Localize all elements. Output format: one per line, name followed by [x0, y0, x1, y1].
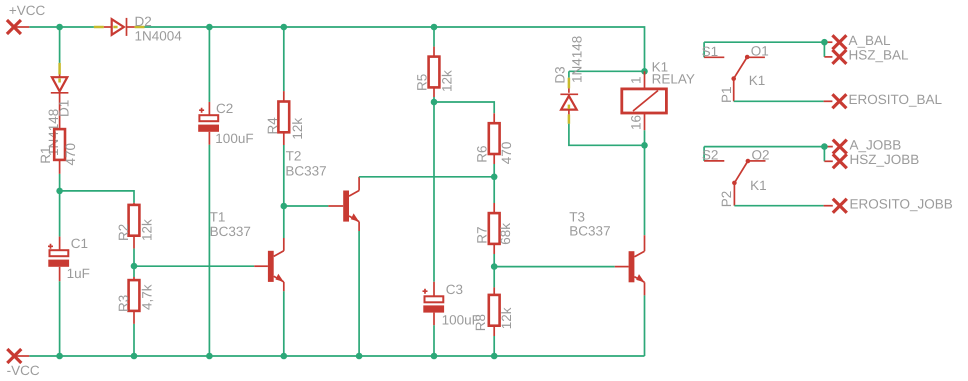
svg-text:T1: T1: [210, 209, 226, 224]
wire node G to R8: [493, 267, 495, 295]
junction bottom rail R8: [491, 353, 498, 360]
wire node E down to C3: [433, 102, 435, 282]
svg-text:D3: D3: [553, 66, 568, 83]
wire relay pin16 to node H: [644, 130, 646, 145]
switch S2: [704, 159, 765, 206]
svg-text:100uF: 100uF: [215, 131, 253, 146]
svg-text:HSZ_JOBB: HSZ_JOBB: [850, 152, 920, 167]
capacitor C2: [198, 102, 219, 145]
wire R5 to node E: [433, 87, 435, 102]
wire S1 to A_BAL: [704, 42, 832, 57]
relay K1: [622, 71, 667, 130]
svg-text:R7: R7: [475, 226, 490, 243]
svg-text:P1: P1: [719, 86, 734, 103]
resistor R2: [129, 205, 140, 236]
svg-text:T3: T3: [569, 209, 585, 224]
wire D3 anode to relay pin16 node: [569, 124, 645, 146]
wire C1 to bottom rail: [59, 281, 61, 356]
svg-text:RELAY: RELAY: [652, 71, 695, 86]
wire node C to R3: [133, 266, 135, 280]
svg-text:C3: C3: [446, 282, 463, 297]
wire R8 to bottom rail: [493, 326, 495, 356]
wire col C2 from rail: [208, 27, 210, 102]
svg-text:1uF: 1uF: [67, 266, 90, 281]
pin X EROSITO_BAL: [832, 94, 846, 108]
resistor R4: [278, 102, 289, 133]
wire node B to R2 top: [60, 191, 134, 205]
wire col B from rail to D1: [59, 27, 61, 63]
switch S1: [704, 55, 765, 102]
svg-text:D2: D2: [135, 14, 152, 29]
wire col R5 from rail: [433, 27, 435, 57]
svg-text:16: 16: [629, 115, 644, 130]
junction top rail col R5: [431, 24, 438, 31]
wire R1 to node B: [59, 160, 61, 191]
junction bottom rail T2 emitter: [356, 353, 363, 360]
wire node C to T1 base: [134, 265, 268, 267]
svg-text:12k: 12k: [440, 70, 455, 92]
wire P1 to EROSITO_BAL: [734, 100, 833, 102]
transistor T3: [629, 251, 645, 282]
svg-text:1N4004: 1N4004: [135, 29, 183, 44]
junction node A_BAL: [821, 39, 828, 46]
wire R4 to node D: [283, 132, 285, 206]
wire T2 collector to R6 node: [359, 177, 494, 191]
node +VCC pin X: [7, 20, 29, 34]
wire T2 emitter to bottom rail: [358, 222, 360, 356]
junction relay pin1 node: [641, 68, 648, 75]
diode D3: [560, 78, 578, 124]
junction node D: [281, 203, 288, 210]
svg-text:K1: K1: [750, 178, 767, 193]
resistor R6: [489, 123, 500, 154]
junction bottom rail col C2: [206, 353, 213, 360]
junction bottom rail col C: [131, 353, 138, 360]
wire R7 to node G: [493, 244, 495, 267]
junction top rail col B: [56, 24, 63, 31]
resistor R5: [429, 57, 440, 88]
transistor T1: [268, 251, 284, 282]
wire R6 to node F: [493, 154, 495, 177]
resistor R8: [489, 295, 500, 326]
svg-text:C1: C1: [71, 236, 88, 251]
svg-text:R6: R6: [475, 145, 490, 162]
svg-text:68k: 68k: [498, 223, 513, 245]
wire relay node to D3: [568, 71, 570, 77]
svg-text:HSZ_BAL: HSZ_BAL: [849, 48, 910, 63]
wire S2 to A_JOBB: [704, 147, 833, 161]
wire -VCC bottom rail: [29, 355, 644, 357]
svg-text:A_BAL: A_BAL: [849, 33, 892, 48]
svg-text:R5: R5: [415, 74, 430, 91]
pin X A_BAL: [832, 35, 846, 49]
wire node to HSZ_JOBB: [824, 147, 832, 162]
junction top rail col C2: [206, 24, 213, 31]
wire +VCC top rail: [29, 27, 644, 71]
svg-text:T2: T2: [286, 149, 302, 164]
svg-text:K1: K1: [749, 73, 766, 88]
wire R3 to bottom rail: [133, 311, 135, 356]
junction bottom rail T1 emitter: [281, 353, 288, 360]
wire node F to R7: [493, 177, 495, 213]
svg-text:R3: R3: [116, 295, 131, 312]
svg-text:BC337: BC337: [210, 224, 251, 239]
wire T3 emitter to bottom rail: [644, 282, 646, 356]
junction top rail col R4: [281, 24, 288, 31]
svg-text:470: 470: [63, 143, 78, 166]
diode D1: [51, 63, 69, 129]
resistor R3: [129, 280, 140, 311]
svg-text:C2: C2: [216, 101, 233, 116]
wire node H to T3 collector: [644, 145, 646, 251]
junction node F: [491, 174, 498, 181]
junction node G: [491, 263, 498, 270]
wire node to HSZ_BAL: [824, 42, 832, 57]
resistor R1: [54, 129, 65, 160]
junction node A_JOBB: [821, 143, 828, 150]
junction node E: [431, 99, 438, 106]
svg-text:BC337: BC337: [285, 164, 326, 179]
wire C3 to bottom rail: [433, 325, 435, 356]
svg-text:12k: 12k: [499, 307, 514, 329]
node -VCC pin X: [7, 349, 29, 363]
pin X HSZ_JOBB: [833, 154, 847, 168]
svg-text:R2: R2: [116, 224, 131, 241]
wire T1 emitter to bottom rail: [283, 282, 285, 356]
svg-text:BC337: BC337: [569, 223, 610, 238]
svg-text:1: 1: [629, 76, 644, 84]
wire node D to T1 collector: [283, 206, 285, 251]
svg-text:S2: S2: [702, 148, 719, 163]
svg-text:R4: R4: [265, 117, 280, 135]
svg-text:S1: S1: [702, 44, 719, 59]
svg-text:O1: O1: [751, 44, 769, 59]
junction bottom rail col B: [56, 353, 63, 360]
pin X EROSITO_JOBB: [833, 199, 847, 213]
resistor R7: [489, 213, 500, 244]
wire R2 to node C: [133, 236, 135, 266]
svg-text:EROSITO_BAL: EROSITO_BAL: [849, 92, 943, 107]
wire C2 to bottom rail: [208, 145, 210, 356]
junction bottom rail C3: [431, 353, 438, 360]
pin X A_JOBB: [833, 140, 847, 154]
svg-text:R1: R1: [38, 146, 53, 163]
svg-text:470: 470: [499, 142, 514, 165]
svg-text:R8: R8: [473, 314, 488, 331]
svg-text:A_JOBB: A_JOBB: [850, 137, 902, 152]
capacitor C1: [48, 237, 69, 282]
wire node E to R6 top: [434, 102, 494, 123]
wire node B down to C1: [59, 191, 61, 237]
wire P2 to EROSITO_JOBB: [734, 205, 832, 207]
svg-text:-VCC: -VCC: [7, 363, 40, 378]
wire col R4 from rail: [283, 27, 285, 102]
svg-text:EROSITO_JOBB: EROSITO_JOBB: [850, 196, 953, 211]
svg-text:O2: O2: [752, 148, 770, 163]
junction node C: [131, 263, 138, 270]
transistor T2: [343, 191, 359, 222]
wire node G to T3 base: [494, 266, 628, 268]
svg-text:4,7k: 4,7k: [139, 284, 154, 310]
svg-text:P2: P2: [719, 191, 734, 208]
junction node H: [641, 142, 648, 149]
svg-text:12k: 12k: [290, 118, 305, 140]
diode D2: [94, 18, 145, 36]
junction node B: [56, 188, 63, 195]
svg-text:+VCC: +VCC: [9, 3, 46, 18]
svg-text:12k: 12k: [139, 219, 154, 241]
wire node D to T2 base: [284, 205, 343, 207]
pin X HSZ_BAL: [832, 50, 846, 64]
capacitor C3: [423, 282, 445, 326]
svg-text:1N4148: 1N4148: [570, 36, 585, 83]
